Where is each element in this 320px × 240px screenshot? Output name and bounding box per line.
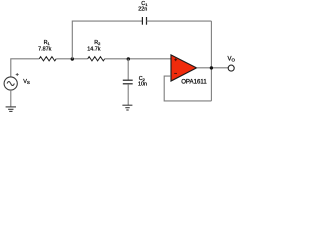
op-amp + input marker xyxy=(174,58,177,61)
svg-text:10n: 10n xyxy=(138,82,147,88)
wire: source top to main line xyxy=(11,59,39,77)
resistor R2 xyxy=(88,57,105,61)
svg-text:7.87k: 7.87k xyxy=(38,46,51,52)
svg-text:22n: 22n xyxy=(138,7,147,13)
output node junction dot xyxy=(210,66,213,69)
svg-text:VS: VS xyxy=(23,79,30,85)
capacitor C2 xyxy=(123,80,133,84)
svg-text:R1: R1 xyxy=(44,40,51,46)
output terminal VO circle xyxy=(228,65,234,71)
capacitor C1 xyxy=(142,17,146,25)
plus sign of source xyxy=(16,73,19,76)
wire R2 to op-amp input xyxy=(105,58,171,60)
wire op-amp output to terminal xyxy=(197,67,229,69)
feedback wire: down from output, left, up to inverting input xyxy=(164,76,211,101)
svg-text:VO: VO xyxy=(228,57,236,63)
resistor R1 xyxy=(39,57,56,61)
ground (source) xyxy=(6,107,16,112)
ground (C2) xyxy=(122,105,132,110)
wire R1 to R2 xyxy=(56,58,87,60)
svg-text:R2: R2 xyxy=(94,40,101,46)
svg-text:14.7k: 14.7k xyxy=(87,47,100,53)
op-amp - input marker xyxy=(174,72,177,74)
node B junction dot (C2 top) xyxy=(127,57,130,60)
voltage source VS circle xyxy=(4,77,17,90)
wire node B down to C2 xyxy=(127,59,129,80)
sine wave inside source xyxy=(7,81,14,85)
wire node A up to feedback top rail xyxy=(72,21,142,59)
svg-text:OPA1611: OPA1611 xyxy=(181,79,207,86)
node A junction dot xyxy=(71,57,74,60)
op-amp U1 OPA1611 xyxy=(171,55,197,81)
wire C1 to right vertical rail xyxy=(147,20,212,22)
right vertical rail (C1 to output to feedback) xyxy=(210,21,212,101)
wire: source bottom to ground xyxy=(10,90,12,107)
wire C2 to ground xyxy=(127,84,129,105)
